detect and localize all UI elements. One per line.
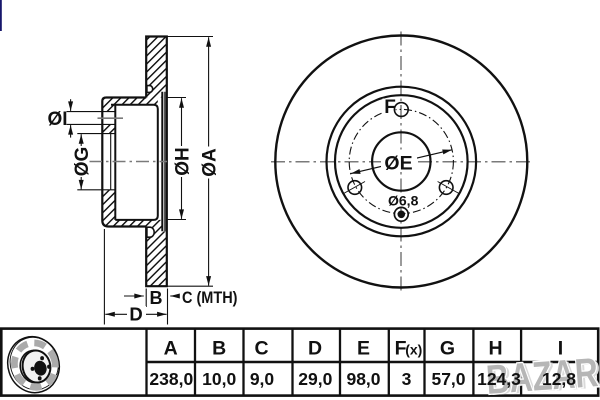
dimension D — [103, 229, 105, 325]
hat cylinder edge line — [161, 92, 163, 232]
dimension OH — [168, 97, 187, 99]
dimension OG — [80, 134, 82, 189]
svg-text:ØI: ØI — [47, 109, 67, 130]
table divider F/G — [423, 329, 425, 396]
hatched section: wall bottom + bottom flange + disc ring bottom — [102, 190, 167, 286]
bolt hole edge lines — [67, 111, 116, 113]
svg-text:10,0: 10,0 — [202, 369, 236, 389]
wall inner edge — [114, 105, 116, 220]
icon center hole — [33, 360, 48, 377]
hat cylinder edge line 2 — [164, 92, 166, 232]
svg-text:A: A — [164, 338, 178, 360]
table divider G/H — [472, 329, 474, 396]
table divider C/D — [291, 329, 293, 396]
bolt hole top (F) — [383, 99, 396, 115]
watermark BAZAR — [485, 349, 600, 400]
svg-text:ØG: ØG — [72, 147, 93, 177]
svg-text:ØH: ØH — [173, 147, 194, 176]
svg-text:C (MTH): C (MTH) — [182, 288, 238, 307]
OE label — [381, 150, 417, 173]
bore far edge — [110, 134, 112, 190]
top groove lobe — [147, 86, 153, 93]
hub bore circle — [372, 132, 430, 190]
table divider A/B — [194, 329, 196, 396]
outer circle — [275, 36, 527, 288]
hat outer boundary — [102, 98, 146, 227]
svg-text:12,8: 12,8 — [542, 369, 576, 389]
svg-text:E: E — [357, 338, 370, 360]
table divider E/F — [388, 329, 390, 396]
OE arrow — [351, 150, 452, 174]
svg-text:D: D — [308, 338, 322, 360]
hatched section: disc ring top + top flange + wall top — [102, 37, 167, 112]
svg-text:(x): (x) — [405, 342, 422, 358]
braking band outer circle — [327, 87, 477, 237]
icon outer disc — [1, 330, 67, 399]
bolt hole bottom with dot — [394, 207, 408, 221]
bolt hole right — [438, 182, 459, 194]
svg-text:238,0: 238,0 — [149, 369, 193, 389]
svg-text:ØE: ØE — [384, 153, 412, 175]
hatched section: wall mid band — [102, 124, 115, 133]
table divider D/E — [339, 329, 341, 396]
icon hub — [18, 348, 51, 385]
table divider B/C — [242, 329, 244, 396]
svg-text:124,3: 124,3 — [477, 369, 521, 389]
horizontal centerline — [271, 161, 532, 163]
table divider icon/A — [145, 329, 147, 396]
svg-text:29,0: 29,0 — [298, 369, 332, 389]
label O6,8 — [386, 193, 422, 207]
hat interior boundary — [111, 105, 158, 220]
table frame — [1, 329, 598, 396]
header row divider — [147, 361, 597, 364]
svg-text:G: G — [440, 338, 455, 360]
bottom groove lobe — [147, 227, 154, 237]
main centerline left view — [89, 161, 167, 163]
braking band inner circle — [335, 95, 468, 228]
svg-text:Ø6,8: Ø6,8 — [388, 192, 419, 208]
svg-text:9,0: 9,0 — [250, 369, 275, 389]
svg-text:3: 3 — [402, 369, 412, 389]
dimension OI — [70, 99, 72, 111]
blue corner mark — [0, 0, 2, 31]
svg-text:98,0: 98,0 — [346, 369, 380, 389]
dimension OA — [168, 36, 214, 38]
svg-text:ØA: ØA — [200, 148, 221, 177]
disc ring outline — [146, 37, 167, 287]
bolt circle (dash-dot) — [349, 109, 453, 213]
icon bolt holes — [40, 356, 44, 360]
svg-text:B: B — [212, 338, 226, 360]
svg-text:57,0: 57,0 — [431, 369, 465, 389]
table divider H/I — [520, 329, 522, 396]
svg-text:H: H — [488, 338, 502, 360]
svg-text:D: D — [129, 304, 142, 325]
bore edge lines — [77, 133, 115, 135]
svg-text:B: B — [150, 288, 163, 308]
svg-text:I: I — [558, 338, 563, 360]
dimension B — [145, 289, 147, 308]
vertical centerline — [400, 32, 402, 293]
bolt hole centerline — [98, 117, 124, 119]
bolt hole left — [344, 182, 365, 194]
svg-text:C: C — [254, 338, 268, 360]
